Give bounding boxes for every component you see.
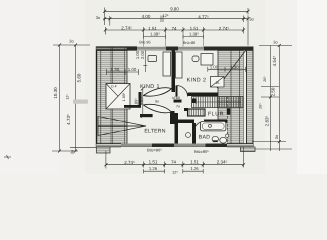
dim tick slashes <box>58 10 281 166</box>
top dim line row2 <box>104 16 249 46</box>
svg-text:Brü=90⁵: Brü=90⁵ <box>194 149 209 154</box>
svg-text:10.30: 10.30 <box>53 87 58 99</box>
BAD door arc <box>195 122 205 132</box>
svg-text:KIND 1: KIND 1 <box>140 84 160 90</box>
svg-text:1.30,: 1.30, <box>111 67 121 72</box>
bathtub <box>201 121 226 130</box>
svg-text:1.51: 1.51 <box>190 160 199 165</box>
svg-text:3o: 3o <box>69 39 74 44</box>
left roof slope hatch band <box>97 47 127 144</box>
window top 1 <box>137 47 166 51</box>
svg-text:1.01⁵: 1.01⁵ <box>140 96 144 105</box>
outer wall top segment east <box>204 47 253 51</box>
svg-text:5.60: 5.60 <box>77 73 82 82</box>
top dim row4 window widths <box>144 35 204 39</box>
top dim line row3 <box>105 27 243 35</box>
vertical line 1b inside right band <box>230 50 232 144</box>
left chain bottom tick upper <box>70 146 96 148</box>
sink <box>220 137 227 143</box>
stairs outline <box>192 97 244 108</box>
svg-text:26: 26 <box>216 81 220 85</box>
svg-text:1.89⁵: 1.89⁵ <box>122 92 126 101</box>
svg-text:BAD: BAD <box>199 134 211 140</box>
svg-text:1.26: 1.26 <box>149 166 158 171</box>
lower wall stub right <box>241 147 256 152</box>
desk KIND1 <box>148 56 157 62</box>
svg-text:2.74⁵: 2.74⁵ <box>219 26 230 31</box>
dark post at band edge <box>227 108 231 114</box>
FLUR south / BAD north wall west part <box>170 120 194 124</box>
svg-text:1.26: 1.26 <box>190 166 199 171</box>
outer wall bottom segment east <box>206 144 254 148</box>
vertical line inside left band <box>110 47 112 144</box>
svg-text:9o: 9o <box>155 100 159 104</box>
bottom dim row2 <box>144 169 204 173</box>
svg-text:2.74⁵: 2.74⁵ <box>124 160 135 165</box>
knee wall line right band <box>217 50 219 120</box>
outer wall left <box>97 47 101 148</box>
left chain bottom tick lower <box>52 150 78 152</box>
svg-text:1.30: 1.30 <box>230 64 239 69</box>
svg-text:4.77⁵: 4.77⁵ <box>198 14 209 19</box>
svg-text:3o: 3o <box>274 134 279 139</box>
right dim chain vertical line A <box>270 46 272 152</box>
stairs walk line with arrow <box>194 100 241 104</box>
svg-text:1.51: 1.51 <box>190 26 199 31</box>
svg-text:74: 74 <box>172 26 177 31</box>
lower wall stub left <box>96 147 110 153</box>
svg-text:1.00: 1.00 <box>210 64 219 69</box>
small dark blob FLUR corner <box>184 108 188 111</box>
svg-text:FLUR: FLUR <box>208 111 224 117</box>
left dim chain vertical line A <box>59 45 61 151</box>
right chain bottom tick2 <box>255 148 292 150</box>
bottom dim line row1 <box>106 147 244 169</box>
door petal lower <box>144 104 172 112</box>
stairs newel block <box>192 99 197 104</box>
svg-text:D-F: D-F <box>111 85 117 89</box>
left dim chain vertical line B <box>75 45 77 151</box>
toilet <box>212 136 218 142</box>
svg-text:ELTERN: ELTERN <box>144 128 165 134</box>
svg-text:AFBR: AFBR <box>172 96 181 100</box>
stair landing box KIND2 corner <box>211 77 225 88</box>
window bottom 1 <box>121 144 152 148</box>
svg-text:1.38⁵: 1.38⁵ <box>150 32 160 37</box>
outer wall right <box>247 47 254 148</box>
right chain mid tick b <box>261 96 280 98</box>
right roof slope hatch band lower <box>227 120 243 144</box>
svg-text:1.51: 1.51 <box>149 160 158 165</box>
svg-text:Brü=86: Brü=86 <box>183 41 195 45</box>
bed KIND2 <box>176 52 183 78</box>
right chain mid tick a <box>261 86 280 88</box>
svg-text:Brü=90⁵: Brü=90⁵ <box>147 148 162 153</box>
small oval ELTERN corner <box>185 133 190 138</box>
ELTERN east wall <box>175 113 179 144</box>
desk KIND2 <box>201 54 213 66</box>
svg-text:1.00: 1.00 <box>128 67 137 72</box>
svg-text:1.51: 1.51 <box>148 26 157 31</box>
BAD north wall east part <box>204 120 227 124</box>
right chain top tick <box>259 45 292 47</box>
svg-text:1.89⁵: 1.89⁵ <box>134 98 139 108</box>
right chain bottom tick <box>252 141 286 143</box>
svg-text:2.34⁵: 2.34⁵ <box>217 160 228 165</box>
svg-text:26⁵: 26⁵ <box>259 103 263 109</box>
svg-text:2.00: 2.00 <box>140 50 145 59</box>
svg-text:3o: 3o <box>249 17 254 22</box>
vertical line 2 inside right band <box>239 50 241 144</box>
outer wall bottom segment mid <box>152 144 174 148</box>
door jamb wall <box>139 92 142 105</box>
svg-text:4.00: 4.00 <box>142 14 151 19</box>
FLUR west wall <box>170 111 175 124</box>
interior dim line KIND2 horizontal <box>208 67 246 72</box>
top dim line total 9.80 <box>105 8 248 26</box>
BAD door leaf <box>202 121 204 131</box>
window jamb extension lines <box>144 34 204 47</box>
svg-text:Brü 95: Brü 95 <box>139 40 150 44</box>
svg-text:2.50: 2.50 <box>271 87 276 96</box>
BAD west wall <box>192 123 196 144</box>
stray tick bottom left <box>4 155 11 159</box>
chair KIND2 <box>192 56 199 62</box>
stairs treads <box>192 97 244 108</box>
bed KIND1 <box>163 52 171 76</box>
svg-text:KIND 2: KIND 2 <box>187 78 207 84</box>
svg-text:2.83⁵: 2.83⁵ <box>265 116 270 127</box>
stair diagonal cut line <box>217 50 246 88</box>
KIND2 south wall <box>188 93 219 97</box>
svg-text:26⁵: 26⁵ <box>263 76 267 82</box>
outer wall top segment mid <box>166 47 178 51</box>
vertical line inside right band <box>227 97 229 144</box>
svg-text:4.73⁵: 4.73⁵ <box>66 114 71 125</box>
ELTERN north wall stub <box>140 114 153 117</box>
svg-text:1.38⁵: 1.38⁵ <box>189 32 199 37</box>
tub drain circle <box>209 124 212 127</box>
partition wall KIND1 / KIND2 <box>172 51 176 93</box>
outer wall bottom segment west <box>96 144 121 148</box>
svg-text:12⁵: 12⁵ <box>66 94 70 100</box>
svg-text:2.74⁵: 2.74⁵ <box>121 25 132 30</box>
svg-text:3o: 3o <box>96 15 101 20</box>
svg-text:7o: 7o <box>176 105 180 109</box>
window bottom 2 <box>174 144 206 148</box>
svg-text:3o: 3o <box>273 40 278 45</box>
wardrobe triangles ELTERN <box>98 117 146 136</box>
svg-text:74: 74 <box>171 160 176 165</box>
outer wall top segment west <box>96 47 137 51</box>
door opening dim line <box>141 87 145 119</box>
window top 2 <box>178 47 204 51</box>
interior dim line KIND1 horizontal <box>107 51 148 76</box>
door petal upper <box>144 88 172 96</box>
paper background <box>0 0 327 174</box>
svg-text:4.54⁵: 4.54⁵ <box>272 56 277 67</box>
KIND1 south wall <box>124 105 141 108</box>
svg-text:12⁵: 12⁵ <box>163 14 169 18</box>
closet box in FLUR <box>188 109 206 116</box>
svg-text:12⁵: 12⁵ <box>172 171 178 174</box>
small dark blob door piece near FLUR <box>174 100 182 103</box>
right roof slope hatch band upper <box>218 50 243 120</box>
KIND2 door arc <box>177 86 188 97</box>
eraser smudge <box>73 100 88 104</box>
KIND2 door leaf <box>176 86 178 97</box>
left chain top tick <box>53 44 90 46</box>
skylight D-F box <box>106 84 130 110</box>
svg-text:9.80: 9.80 <box>170 7 179 12</box>
knee wall line left band <box>126 47 128 144</box>
small circle fixture <box>226 134 229 137</box>
svg-text:3o: 3o <box>69 149 74 154</box>
right dim chain vertical line B <box>278 46 280 152</box>
